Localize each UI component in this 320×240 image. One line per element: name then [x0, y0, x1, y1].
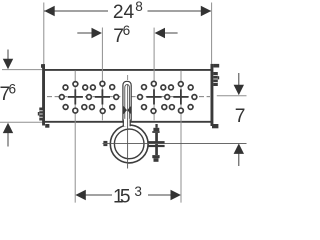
- svg-text:24: 24: [113, 2, 135, 23]
- svg-text:6: 6: [123, 23, 131, 38]
- svg-text:5: 5: [120, 187, 131, 206]
- svg-text:6: 6: [9, 82, 17, 97]
- svg-text:3: 3: [134, 184, 142, 199]
- svg-text:7: 7: [235, 106, 246, 127]
- svg-text:8: 8: [135, 0, 143, 14]
